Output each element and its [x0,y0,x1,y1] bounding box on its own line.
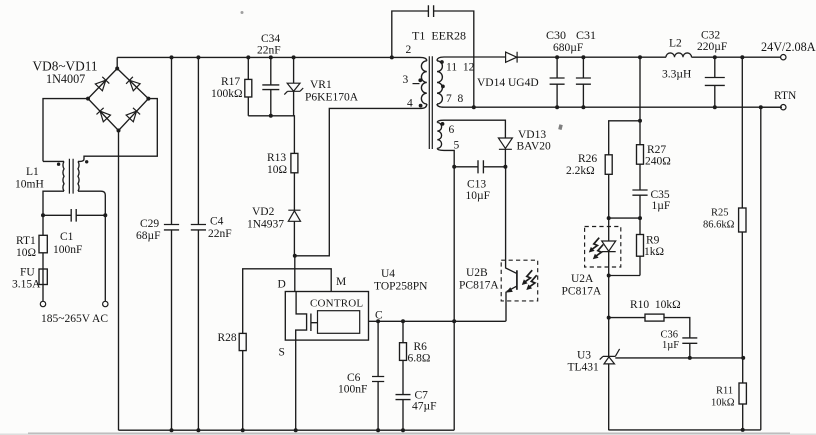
svg-text:2: 2 [406,44,412,56]
wire: R26/R27 mid node [607,216,642,220]
pin label M [336,276,346,288]
svg-text:C29: C29 [140,218,159,230]
wire: M pin to R28 [243,269,332,334]
label R13 10Ω [267,152,287,176]
svg-text:R6: R6 [414,341,428,353]
resistor R6 [400,319,407,394]
node: drain junction [293,254,297,258]
label R9 1kΩ [644,235,664,259]
label RTN [774,90,797,102]
pin label 3 [403,74,409,86]
svg-text:VR1: VR1 [310,79,332,91]
wire: D pin drop [294,256,296,292]
resistor R17 [245,55,252,115]
label 24V/2.08A [761,40,816,54]
transformer T1 EER28 core [429,56,432,149]
thermistor RT1 [39,215,47,269]
svg-text:86.6kΩ: 86.6kΩ [703,220,735,231]
svg-text:68µF: 68µF [136,230,161,242]
output terminal 24V [781,55,786,60]
wire: RTN rail to terminal [761,106,781,108]
TVS VR1 P6KE170A [284,55,303,115]
diode VD2 1N4937 [288,210,300,256]
resistor R25 [739,55,746,358]
label U2A PC817A [562,273,602,298]
svg-text:1kΩ: 1kΩ [644,246,664,258]
wire: branch to R26 [609,121,640,155]
svg-text:R27: R27 [647,144,666,156]
bridge rectifier VD8~VD11 diamond [86,67,150,133]
capacitor C6 [372,319,384,432]
svg-text:L2: L2 [669,38,682,50]
wire: secondary ground rail [609,429,761,431]
wire: primary ground rail [119,429,455,431]
svg-text:680µF: 680µF [553,42,583,54]
optocoupler U2B phototransistor [506,167,517,321]
AC terminal left [40,301,45,306]
pin label 11 12 [446,62,475,74]
U2A dashed box [585,227,621,268]
label R6 6.8Ω [408,341,431,365]
scan streak bottom [0,432,816,435]
svg-text:47µF: 47µF [412,401,437,413]
capacitor C32 [705,55,725,109]
svg-text:CONTROL: CONTROL [310,298,363,310]
svg-text:S: S [279,347,285,359]
pin label 7 8 [446,93,464,105]
label FU 3.15A [12,267,41,291]
svg-text:3.15A: 3.15A [12,279,41,291]
svg-text:U3: U3 [577,350,591,362]
svg-text:24V/2.08A: 24V/2.08A [761,40,816,54]
svg-text:PC817A: PC817A [459,280,499,292]
svg-text:R26: R26 [578,153,597,165]
pin label 2 [406,44,412,56]
label R17 100kΩ [211,76,243,100]
wire: REF line [615,356,745,360]
svg-text:C13: C13 [467,179,486,191]
capacitor C31 [576,55,591,109]
label R11 10kΩ [711,386,735,409]
svg-text:C4: C4 [210,216,224,228]
resistor R9 [637,218,644,275]
label C1 100nF [53,231,82,256]
svg-text:RT1: RT1 [16,235,36,247]
U4 MOSFET symbol [296,292,318,341]
wire: RTN to secondary ground rail [760,107,762,430]
label C7 47µF [412,390,437,413]
resistor R27 [637,121,644,190]
wire: bridge right vertex to L1 [78,99,157,162]
capacitor C1 [41,209,107,222]
pin label C [375,310,383,322]
svg-text:22nF: 22nF [208,228,232,240]
label C36 1µF [661,330,680,352]
svg-text:R17: R17 [221,76,240,88]
svg-text:R13: R13 [267,152,286,164]
label C4 22nF [208,216,232,241]
svg-text:100nF: 100nF [338,384,367,396]
label VD8~VD11 1N4007 [33,59,98,87]
diode VD9 (top-right edge) [126,77,140,91]
capacitor C13 [452,160,507,173]
wire: bridge top riser [116,57,118,68]
label C29 68µF [136,218,161,242]
svg-text:R25: R25 [711,208,729,219]
pin label 5 [454,140,460,152]
svg-text:T1 EER28: T1 EER28 [412,29,466,43]
label U4 TOP258PN [374,268,428,293]
wire: clamp bottom node [248,116,294,154]
label C34 22nF [257,33,281,57]
U2B light arrows [522,270,537,290]
label VR1 P6KE170A [305,79,359,104]
node: bias return joins C wire [452,319,456,323]
svg-text:22nF: 22nF [257,45,281,57]
output terminal RTN [781,105,786,110]
wire: primary top DC bus [117,56,420,58]
inductor L1 common-mode choke [43,159,105,216]
node: TL431 cathode [607,316,611,320]
label CONTROL [310,298,363,310]
resistor R28 [239,333,246,432]
diode VD8 (top-left edge) [95,77,109,91]
pin label 4 [407,98,413,110]
label VD14 UG4D [477,77,539,89]
scan speck 2 [241,11,244,14]
svg-text:3: 3 [403,74,409,86]
node: feedback tap on 24V rail [638,55,642,59]
capacitor C4 column [191,55,206,432]
resistor R10 [609,314,690,338]
label C32 220µF [697,30,727,54]
label R28 [218,332,237,344]
svg-text:P6KE170A: P6KE170A [305,92,359,104]
label C30 C31 680µF [546,28,596,54]
label C13 10µF [466,179,491,203]
svg-text:220µF: 220µF [697,41,727,53]
T1 bias winding pins 6-5 [437,120,505,322]
svg-text:100nF: 100nF [53,244,82,256]
node: RTN drop [759,105,763,109]
T1 secondary winding pins 11-12 / 7-8 [437,57,782,107]
svg-text:1µF: 1µF [662,340,679,351]
svg-text:1µF: 1µF [652,200,671,212]
wire: drain node to transformer pin 4 [295,108,419,255]
wire: feedback tap drop [638,57,642,123]
capacitor C35 [632,190,647,218]
svg-text:10kΩ: 10kΩ [711,398,735,409]
svg-text:3.3µH: 3.3µH [662,69,691,81]
svg-text:R28: R28 [218,332,237,344]
svg-text:RTN: RTN [774,90,797,102]
svg-text:VD14 UG4D: VD14 UG4D [477,77,539,89]
svg-text:5: 5 [454,140,460,152]
svg-text:VD13: VD13 [518,129,546,141]
svg-text:6.8Ω: 6.8Ω [408,353,431,365]
svg-text:D: D [278,279,286,291]
label T1 EER28 [412,29,466,43]
svg-text:1N4007: 1N4007 [46,72,85,86]
diode VD13 BAV20 [498,138,512,167]
svg-text:11 12: 11 12 [446,62,475,74]
svg-text:240Ω: 240Ω [645,156,671,168]
capacitor Y-cap primary-secondary [392,5,476,109]
svg-text:6: 6 [449,124,455,136]
svg-text:C30: C30 [546,28,566,42]
pin label S [279,347,285,359]
svg-text:R10 10kΩ: R10 10kΩ [630,299,681,311]
label U3 TL431 [568,350,600,374]
U2B dashed box [501,260,538,301]
svg-text:1N4937: 1N4937 [247,219,284,231]
wire: right AC branch [104,215,106,301]
node: LED cathode / R9 [607,274,640,278]
U4 inner control box [318,311,360,334]
svg-text:BAV20: BAV20 [517,141,552,153]
svg-text:FU: FU [20,267,35,279]
pin label D [278,279,286,291]
svg-text:10mH: 10mH [15,179,44,191]
svg-text:10µF: 10µF [466,190,491,202]
svg-text:4: 4 [407,98,413,110]
label C6 100nF [338,372,367,396]
svg-text:10Ω: 10Ω [267,164,287,176]
svg-text:VD2: VD2 [252,206,275,218]
resistor R11 [739,358,746,432]
AC terminal right [103,301,108,306]
svg-text:PC817A: PC817A [562,286,602,298]
label 185~265V AC [41,313,108,325]
label VD13 BAV20 [517,129,552,153]
diode VD10 (bottom-left edge) [96,108,110,122]
capacitor C34 [262,55,279,117]
wire: 24V top rail [517,56,781,58]
svg-text:U2A: U2A [571,273,594,285]
capacitor C7 [396,395,411,433]
svg-text:185~265V AC: 185~265V AC [41,313,108,325]
label C35 1µF [651,189,671,212]
wire: C pin bus [369,320,506,322]
label L1 10mH [15,166,44,191]
label VD2 1N4937 [247,206,284,231]
diode VD11 (bottom-right edge) [126,108,140,122]
label U2B PC817A [459,267,499,292]
label R10 10kΩ [630,299,681,311]
svg-text:2.2kΩ: 2.2kΩ [566,165,595,177]
svg-text:L1: L1 [26,166,39,178]
svg-text:TOP258PN: TOP258PN [374,281,428,293]
svg-text:100kΩ: 100kΩ [211,88,243,100]
optocoupler U2A LED [602,218,616,318]
svg-text:C32: C32 [701,30,720,42]
svg-text:C31: C31 [576,28,596,42]
capacitor C29 column [164,55,179,432]
wire: bridge left vertex to L1 [43,99,88,162]
inductor L2 [666,53,692,57]
label R27 240Ω [645,144,671,168]
svg-text:M: M [336,276,346,288]
capacitor C30 [550,55,565,109]
svg-text:C36: C36 [661,330,679,341]
scan speck 1 [558,124,563,130]
wire: S pin to rail [294,340,298,432]
svg-text:TL431: TL431 [568,362,600,374]
svg-text:C1: C1 [60,231,74,243]
svg-text:7 8: 7 8 [446,93,464,105]
T1 primary winding pins 2-3-4 [413,57,427,108]
wire: bridge bottom vertex to ground rail [118,131,120,431]
svg-text:U4: U4 [381,268,395,280]
svg-text:R9: R9 [646,235,660,247]
IC U4 TOP258PN outer box [285,292,368,341]
resistor R26 [605,155,612,218]
wire: bias return to ground rail [453,322,455,430]
node: pin2 bus junction [390,55,394,59]
shunt regulator U3 TL431 [600,318,620,431]
svg-text:C6: C6 [347,372,361,384]
capacitor C36 [682,338,697,360]
svg-text:10Ω: 10Ω [16,247,36,259]
resistor R13 [291,153,298,210]
fuse FU [39,269,47,301]
pin label 6 [449,124,455,136]
label R26 2.2kΩ [566,153,597,177]
svg-text:C34: C34 [261,33,280,45]
label R25 86.6kΩ [703,208,735,231]
diode VD14 UG4D [506,52,517,63]
svg-text:U2B: U2B [466,267,488,279]
label L2 3.3µH [662,38,691,81]
label RT1 10Ω [16,235,36,259]
U2A light arrows [589,238,603,260]
svg-text:R11: R11 [716,386,733,397]
